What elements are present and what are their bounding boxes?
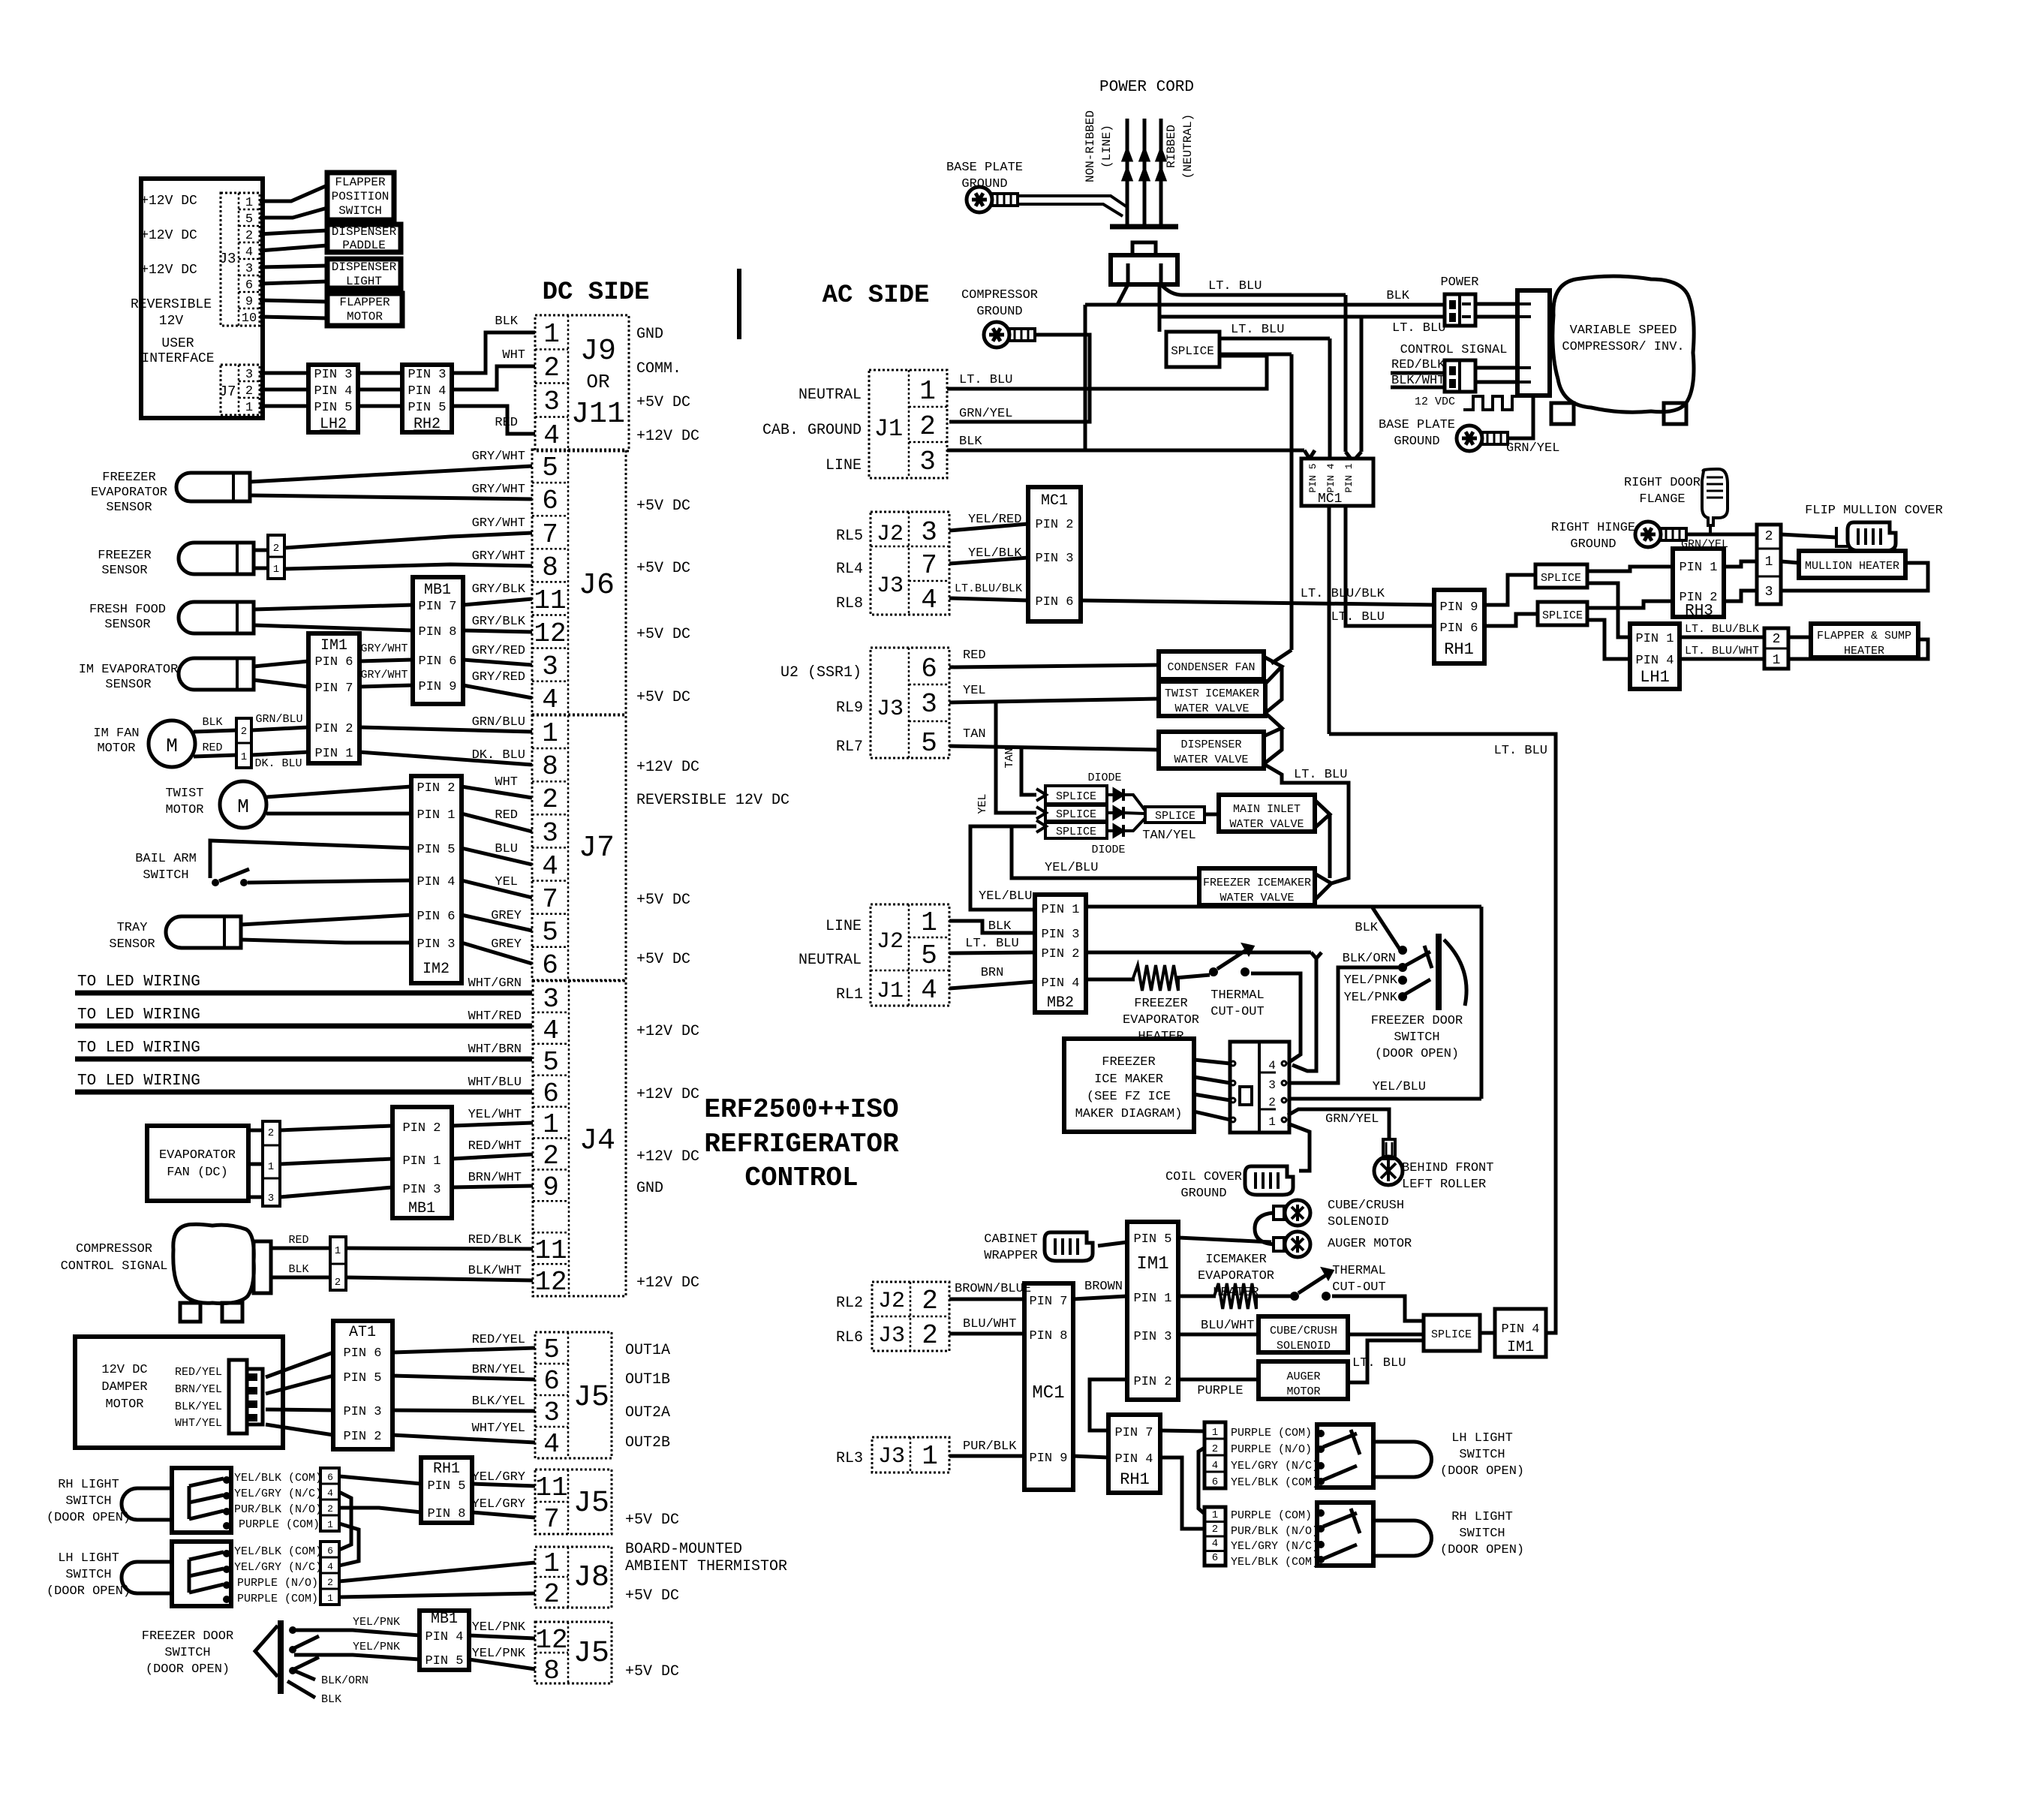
svg-text:IM EVAPORATOR: IM EVAPORATOR: [79, 663, 179, 677]
svg-text:(LINE): (LINE): [1100, 125, 1114, 168]
svg-text:7: 7: [542, 884, 558, 915]
wire compressor BLK: [271, 1276, 330, 1280]
splice 1: [1166, 332, 1219, 367]
svg-text:MOTOR: MOTOR: [1286, 1385, 1320, 1398]
freezer ice maker box: [1064, 1039, 1194, 1132]
svg-text:POWER CORD: POWER CORD: [1099, 79, 1194, 96]
svg-text:AT1: AT1: [349, 1324, 376, 1341]
wire IM2 pin2 WHT to J7-2: [462, 787, 532, 798]
svg-text:RL7: RL7: [836, 739, 863, 756]
wire AT1 pin3 BLK/YEL to J5-3: [392, 1410, 535, 1411]
connector LH2: [308, 365, 358, 432]
svg-text:SWITCH: SWITCH: [338, 204, 382, 218]
svg-text:RED: RED: [495, 808, 518, 823]
svg-text:YEL/GRY (N/C): YEL/GRY (N/C): [1231, 1540, 1319, 1553]
svg-text:2: 2: [268, 1127, 274, 1139]
connector 6/4/2/1 LH switch dc: [320, 1542, 339, 1605]
connector AT1: [333, 1321, 392, 1449]
svg-text:11: 11: [534, 1235, 567, 1266]
wire BLK diagonal to freezer door switch ac: [1372, 907, 1400, 950]
svg-text:PURPLE (N/O): PURPLE (N/O): [1231, 1443, 1312, 1456]
svg-text:RIGHT DOOR: RIGHT DOOR: [1624, 476, 1701, 490]
svg-text:BRN: BRN: [981, 966, 1004, 980]
wire LH1 pin1 LT. BLU/BLK to conn 2: [1680, 636, 1764, 639]
svg-text:DIODE: DIODE: [1087, 772, 1121, 784]
svg-text:PIN 3: PIN 3: [1035, 552, 1073, 566]
svg-text:FREEZER: FREEZER: [102, 471, 155, 485]
svg-text:DIODE: DIODE: [1091, 844, 1125, 856]
svg-text:+5V DC: +5V DC: [636, 560, 690, 577]
svg-text:YEL/BLK: YEL/BLK: [968, 546, 1022, 561]
svg-text:+5V DC: +5V DC: [636, 689, 690, 706]
svg-text:BLK/ORN: BLK/ORN: [1343, 952, 1396, 966]
svg-text:BLK/WHT: BLK/WHT: [1391, 374, 1445, 388]
svg-text:(DOOR OPEN): (DOOR OPEN): [47, 1511, 131, 1525]
svg-text:GRN/YEL: GRN/YEL: [1681, 538, 1728, 551]
svg-text:BASE PLATE: BASE PLATE: [1379, 418, 1455, 432]
svg-text:PIN 2: PIN 2: [402, 1121, 441, 1136]
wire J3-3 to dispenser light: [260, 266, 327, 267]
svg-text:PIN 3: PIN 3: [417, 937, 455, 952]
svg-text:GRY/WHT: GRY/WHT: [472, 549, 525, 564]
svg-text:2: 2: [542, 784, 558, 815]
svg-text:5: 5: [543, 1334, 560, 1365]
svg-text:RED: RED: [495, 416, 518, 430]
svg-text:CUBE/CRUSH: CUBE/CRUSH: [1270, 1325, 1337, 1337]
wire MC1 pin9 to RH1 pin4: [1073, 1456, 1108, 1458]
svg-text:GRY/WHT: GRY/WHT: [360, 669, 407, 681]
svg-text:PIN 2: PIN 2: [417, 781, 455, 796]
svg-text:1: 1: [245, 401, 253, 415]
svg-text:SWITCH: SWITCH: [65, 1494, 111, 1509]
svg-text:YEL/PNK: YEL/PNK: [353, 1616, 400, 1629]
wire cube crush box to splice5: [1348, 1333, 1424, 1337]
wire RH1 pin8 YEL/GRY to J5-7: [472, 1512, 535, 1518]
svg-text:RL2: RL2: [836, 1295, 863, 1312]
connector 2/1 freezer sensor: [268, 535, 284, 579]
svg-text:J3: J3: [878, 1444, 905, 1470]
svg-text:POSITION: POSITION: [332, 190, 389, 203]
connector J5 out: [535, 1332, 612, 1458]
wire heater to thermal cutout 2: [1255, 1295, 1291, 1298]
flapper and sump heater box: [1811, 624, 1918, 657]
svg-text:CUBE/CRUSH: CUBE/CRUSH: [1328, 1199, 1404, 1213]
wire evap fan 1 to MB1 pin1: [280, 1159, 392, 1164]
wire tray sensor to IM2 pin6: [241, 915, 411, 925]
wire IM1 pin1 DK. BLU to J7-8: [359, 752, 532, 765]
wire thermal cutout 2 to splice5: [1332, 1296, 1424, 1321]
svg-text:YEL/PNK: YEL/PNK: [472, 1647, 526, 1661]
wire IM2 pin1 RED to J7-3: [462, 814, 532, 832]
svg-text:SPLICE: SPLICE: [1056, 808, 1096, 821]
svg-text:DISPENSER: DISPENSER: [332, 225, 397, 239]
svg-text:RL8: RL8: [836, 595, 863, 612]
svg-text:GRY/WHT: GRY/WHT: [472, 483, 525, 497]
svg-text:LT. BLU: LT. BLU: [1352, 1356, 1406, 1370]
svg-text:GRN/YEL: GRN/YEL: [959, 407, 1012, 421]
svg-text:5: 5: [245, 212, 253, 227]
diode 2: [1107, 811, 1114, 814]
wire RL4 YEL/BLK to MC1 pin3: [949, 558, 1028, 564]
svg-text:NEUTRAL: NEUTRAL: [798, 952, 862, 969]
wire RH switch to RH1 pin8: [339, 1508, 421, 1512]
svg-text:PIN 4: PIN 4: [314, 384, 352, 399]
crosslink RH to LH switch wires dc: [339, 1492, 351, 1550]
diode 3: [1107, 829, 1114, 832]
svg-text:CONDENSER FAN: CONDENSER FAN: [1167, 661, 1255, 674]
svg-text:3: 3: [543, 984, 559, 1015]
svg-text:GRN/BLU: GRN/BLU: [472, 715, 525, 730]
svg-text:U2 (SSR1): U2 (SSR1): [780, 664, 862, 681]
svg-text:INTERFACE: INTERFACE: [141, 351, 214, 366]
svg-text:TO LED WIRING: TO LED WIRING: [77, 1072, 200, 1090]
svg-text:BROWN: BROWN: [1084, 1280, 1123, 1294]
wire IM2 pin5 BLU to J7-4: [462, 848, 532, 865]
svg-text:3: 3: [268, 1193, 274, 1205]
svg-text:TAN/YEL: TAN/YEL: [1142, 829, 1195, 843]
svg-text:J1: J1: [877, 979, 904, 1004]
svg-text:PIN 8: PIN 8: [1029, 1329, 1067, 1343]
YEL/BLU loop from MB2 pin1 to splice3: [970, 826, 1036, 910]
svg-text:FAN (DC): FAN (DC): [167, 1166, 228, 1180]
svg-text:GROUND: GROUND: [1180, 1187, 1226, 1201]
svg-text:4: 4: [1212, 1538, 1218, 1550]
svg-text:MB1: MB1: [431, 1611, 458, 1628]
svg-text:LEFT ROLLER: LEFT ROLLER: [1402, 1178, 1486, 1192]
svg-text:FREEZER: FREEZER: [1134, 997, 1187, 1011]
crosslink LH conn 2 to RH conn 1: [1198, 1448, 1204, 1514]
svg-text:YEL/BLU: YEL/BLU: [1045, 861, 1098, 875]
svg-text:BRN/YEL: BRN/YEL: [472, 1363, 525, 1377]
wire evap fan 3 to MB1 pin3: [280, 1187, 392, 1197]
svg-text:3: 3: [1765, 585, 1773, 600]
svg-text:+5V DC: +5V DC: [636, 498, 690, 515]
svg-text:PIN 7: PIN 7: [1114, 1426, 1153, 1440]
svg-text:BLK/ORN: BLK/ORN: [321, 1674, 368, 1687]
svg-text:SENSOR: SENSOR: [106, 501, 152, 515]
svg-text:M: M: [237, 796, 249, 818]
connector J7 main: [532, 715, 626, 980]
wire RH3 pin1 to conn 1: [1724, 561, 1757, 567]
svg-text:ICE MAKER: ICE MAKER: [1094, 1072, 1163, 1087]
wire J3-1 to flapper position switch: [260, 185, 327, 201]
svg-text:11: 11: [535, 1473, 567, 1503]
svg-text:12 VDC: 12 VDC: [1415, 396, 1455, 408]
wire BLK/ORN from door switch to icemaker conn pin3: [1288, 967, 1403, 1083]
svg-text:PIN 1: PIN 1: [417, 808, 455, 823]
svg-text:PIN 4: PIN 4: [1041, 976, 1079, 991]
svg-text:PIN 1: PIN 1: [1041, 903, 1079, 917]
svg-text:FREEZER: FREEZER: [98, 549, 151, 563]
connector J3: [221, 193, 260, 326]
svg-text:PIN 5: PIN 5: [425, 1654, 463, 1668]
svg-text:SWITCH: SWITCH: [1459, 1527, 1505, 1541]
svg-text:EVAPORATOR: EVAPORATOR: [1198, 1269, 1274, 1283]
svg-text:RH1: RH1: [1120, 1470, 1150, 1489]
wire thermal cutout to icemaker conn pin4: [1251, 973, 1301, 1062]
compressor symbol dc: [173, 1224, 254, 1303]
wire icemaker pin1 to coil cover ground: [1288, 1124, 1310, 1171]
twist icemaker water valve box: [1159, 681, 1265, 716]
svg-text:SPLICE: SPLICE: [1431, 1328, 1472, 1341]
svg-text:IM1: IM1: [320, 637, 347, 654]
svg-text:(DOOR OPEN): (DOOR OPEN): [1440, 1464, 1524, 1479]
LH light switch box dc: [172, 1542, 231, 1606]
svg-text:BLK: BLK: [1355, 921, 1378, 935]
svg-text:9: 9: [543, 1172, 559, 1203]
svg-text:WHT/YEL: WHT/YEL: [175, 1417, 222, 1430]
wire splice LT. BLU to MC1 pin4: [1219, 337, 1330, 341]
pin 4 IM1 box: [1495, 1309, 1546, 1357]
svg-text:1: 1: [241, 751, 247, 763]
connector RH1 bottom: [1108, 1415, 1160, 1493]
wire RL2 BROWN/BLUE to MC1 pin7: [949, 1298, 1024, 1301]
connector J1: [869, 370, 947, 478]
wire freezer door switch BLK stub: [287, 1681, 315, 1698]
svg-text:WHT/BLU: WHT/BLU: [468, 1075, 522, 1090]
LH light switch box ac: [1317, 1424, 1373, 1488]
svg-text:2: 2: [1765, 529, 1773, 544]
wires RED/BLK BLK/WHT stubs: [1391, 372, 1445, 375]
svg-text:GRY/WHT: GRY/WHT: [472, 516, 525, 531]
compressor terminal block: [1517, 290, 1550, 396]
connector IM2: [411, 776, 462, 983]
svg-text:12: 12: [534, 618, 566, 649]
svg-text:6: 6: [542, 950, 558, 981]
svg-text:PIN 1: PIN 1: [1133, 1292, 1171, 1306]
connector MB2: [1035, 895, 1086, 1012]
svg-text:SPLICE: SPLICE: [1056, 790, 1096, 803]
svg-text:LINE: LINE: [826, 918, 862, 935]
svg-text:12: 12: [535, 1625, 567, 1656]
wire im evap sensor to IM1 pin7: [254, 680, 308, 687]
svg-text:J2: J2: [878, 1289, 905, 1314]
wire splice3 to RH3 pin2: [1587, 601, 1673, 608]
power plug: [1132, 242, 1156, 255]
wire RL5 YEL/RED to MC1 pin2: [949, 524, 1028, 531]
wire RL3 PUR/BLK to MC1 pin9: [949, 1454, 1024, 1458]
svg-text:(DOOR OPEN): (DOOR OPEN): [1440, 1543, 1524, 1557]
svg-text:6: 6: [542, 486, 558, 516]
svg-text:LT. BLU/BLK: LT. BLU/BLK: [1685, 623, 1759, 636]
wire MB1 pin8 GRY/BLK to J6-12: [463, 630, 532, 632]
wire RED/BLK to J4-11: [346, 1248, 533, 1249]
LH light switch lamp ac: [1373, 1442, 1432, 1477]
behind front left roller ground: [1383, 1139, 1395, 1159]
connector 2/1/3 evaporator fan: [263, 1121, 280, 1206]
wire TAN branch to splice1: [1021, 746, 1036, 795]
wire twist motor to IM2 pin2: [266, 787, 411, 797]
svg-text:THERMAL: THERMAL: [1210, 988, 1264, 1003]
svg-text:PIN 9: PIN 9: [1029, 1451, 1067, 1466]
wire RH2 pin3 BLK to J9-1: [452, 332, 535, 373]
main inlet valve bracket: [1315, 800, 1330, 828]
svg-text:GRY/RED: GRY/RED: [472, 644, 525, 658]
svg-text:MC1: MC1: [1318, 492, 1342, 507]
svg-text:J7: J7: [579, 832, 615, 865]
svg-text:PIN 5: PIN 5: [343, 1371, 381, 1385]
svg-text:REVERSIBLE: REVERSIBLE: [131, 297, 212, 312]
svg-text:+12V DC: +12V DC: [636, 428, 699, 445]
wire J1-1 LT. BLU to splice: [947, 356, 1267, 389]
svg-text:4: 4: [921, 585, 937, 615]
svg-text:2: 2: [1212, 1443, 1218, 1455]
svg-text:J3: J3: [877, 573, 904, 599]
svg-text:WHT/RED: WHT/RED: [468, 1009, 522, 1024]
svg-text:YEL/PNK: YEL/PNK: [472, 1620, 526, 1635]
svg-text:DISPENSER: DISPENSER: [1180, 739, 1241, 751]
svg-text:TAN: TAN: [963, 727, 986, 742]
svg-text:RH LIGHT: RH LIGHT: [1451, 1510, 1513, 1524]
wire IM1 pin2 to RH1 pin7: [1090, 1379, 1127, 1430]
connector 2/1 IM fan motor: [236, 718, 251, 768]
svg-text:COMPRESSOR: COMPRESSOR: [76, 1242, 152, 1256]
svg-text:PIN 5: PIN 5: [314, 401, 352, 415]
svg-text:OUT2B: OUT2B: [625, 1434, 670, 1451]
svg-text:PIN 4: PIN 4: [407, 384, 446, 399]
wire plug left pin BLK down: [1085, 284, 1128, 305]
wire RH1 pin4 to RH switch conn 2: [1160, 1458, 1204, 1529]
svg-text:AUGER MOTOR: AUGER MOTOR: [1328, 1237, 1412, 1251]
svg-text:12: 12: [534, 1267, 567, 1298]
svg-text:J5: J5: [573, 1381, 609, 1415]
svg-text:BLK: BLK: [959, 435, 982, 449]
svg-text:RED: RED: [202, 742, 222, 754]
svg-text:SENSOR: SENSOR: [101, 564, 147, 578]
svg-text:YEL/GRY (N/C): YEL/GRY (N/C): [234, 1488, 322, 1500]
svg-text:+5V DC: +5V DC: [636, 951, 690, 968]
svg-text:BLK: BLK: [288, 1263, 308, 1276]
wire LH1 pin4 LT. BLU/WHT to conn 1: [1680, 657, 1764, 661]
svg-text:PIN 6: PIN 6: [418, 654, 456, 669]
svg-text:GRY/RED: GRY/RED: [472, 670, 525, 684]
svg-text:BLK: BLK: [321, 1693, 341, 1706]
svg-text:OUT1A: OUT1A: [625, 1342, 670, 1359]
wire RH1 pin7 to LH switch conn 1: [1160, 1430, 1204, 1431]
svg-text:3: 3: [245, 262, 253, 276]
dispenser paddle: [327, 224, 401, 252]
svg-text:PIN 4: PIN 4: [425, 1630, 463, 1644]
svg-text:GRY/BLK: GRY/BLK: [472, 582, 526, 597]
svg-text:LT. BLU: LT. BLU: [959, 373, 1012, 387]
svg-text:DAMPER: DAMPER: [101, 1380, 147, 1394]
svg-text:4: 4: [921, 975, 937, 1006]
svg-text:2: 2: [922, 1286, 938, 1316]
svg-text:MC1: MC1: [1041, 492, 1068, 510]
svg-text:2: 2: [273, 543, 279, 555]
wire evap fan 2 to MB1 pin2: [280, 1126, 392, 1130]
wire LT. BLU to power connector pin2: [1159, 315, 1445, 319]
wire J1-4 BRN to MB2 pin4: [949, 982, 1035, 988]
svg-text:J2: J2: [877, 522, 904, 547]
freezer icemaker valve bracket: [1315, 874, 1331, 900]
svg-text:RH LIGHT: RH LIGHT: [58, 1478, 119, 1492]
wire freezer door switch YEL/PNK to MB1 pin4: [294, 1630, 420, 1635]
svg-text:PIN 6: PIN 6: [314, 655, 353, 669]
svg-text:IM1: IM1: [1136, 1254, 1168, 1274]
svg-text:LH1: LH1: [1640, 668, 1670, 687]
auger motor box: [1259, 1361, 1348, 1399]
condenser fan box: [1159, 651, 1264, 679]
svg-text:M: M: [166, 735, 178, 757]
svg-text:WHT/BRN: WHT/BRN: [468, 1042, 522, 1057]
diode 1: [1107, 793, 1114, 796]
svg-text:FREEZER ICEMAKER: FREEZER ICEMAKER: [1203, 877, 1311, 889]
svg-text:WHT/GRN: WHT/GRN: [468, 976, 522, 991]
connector IM1 dc: [308, 633, 359, 763]
dispenser water valve box: [1159, 732, 1264, 769]
svg-text:3: 3: [921, 517, 937, 548]
svg-text:8: 8: [542, 552, 558, 583]
svg-text:IM2: IM2: [423, 961, 450, 978]
wire IM1 pin6 GRY/WHT to MB1 pin6: [359, 660, 413, 661]
svg-text:2: 2: [1268, 1096, 1276, 1109]
wire twist motor to IM2 pin1: [266, 812, 411, 816]
RH light switch lamp ac: [1373, 1521, 1432, 1556]
flapper position switch: [327, 173, 394, 220]
svg-text:1: 1: [335, 1245, 341, 1257]
wire mullion heater loop to conn 3: [1781, 563, 1928, 591]
svg-text:7: 7: [921, 550, 937, 581]
wire MB1 pin4 YEL/PNK to J5-12: [469, 1635, 535, 1638]
wire im evap sensor to IM1 pin6: [254, 661, 308, 666]
svg-text:PIN 3: PIN 3: [407, 368, 446, 382]
svg-text:FLAPPER & SUMP: FLAPPER & SUMP: [1817, 630, 1911, 642]
svg-text:GROUND: GROUND: [1394, 435, 1439, 449]
svg-text:2: 2: [245, 384, 253, 399]
svg-text:4: 4: [543, 1429, 560, 1460]
connector MB1 evaporator fan: [392, 1107, 452, 1218]
svg-text:PURPLE (N/O): PURPLE (N/O): [237, 1577, 318, 1590]
svg-text:1: 1: [921, 907, 937, 938]
LH light switch lamp dc: [122, 1562, 172, 1593]
svg-text:BLK: BLK: [495, 314, 518, 329]
svg-text:TO LED WIRING: TO LED WIRING: [77, 973, 200, 991]
wire IM fan motor RED: [194, 755, 236, 757]
svg-text:GND: GND: [636, 1180, 663, 1197]
svg-text:RL5: RL5: [836, 528, 863, 545]
wire splice2 to LH1 pin1: [1587, 583, 1630, 637]
svg-text:YEL/PNK: YEL/PNK: [1344, 991, 1398, 1005]
svg-text:YEL: YEL: [963, 684, 986, 698]
svg-text:+12V DC: +12V DC: [140, 263, 197, 278]
svg-text:2: 2: [922, 1320, 938, 1351]
wire AT1 pin6 RED/YEL to J5-5: [392, 1348, 535, 1352]
svg-text:REFRIGERATOR: REFRIGERATOR: [704, 1129, 899, 1160]
wire MB1 pin3 BRN/WHT to J4-9: [452, 1186, 533, 1187]
wire freezer evap sensor GRY/WHT to J6-5: [250, 466, 532, 482]
svg-text:4: 4: [1268, 1059, 1276, 1072]
svg-text:2: 2: [543, 353, 560, 384]
svg-text:WHT/YEL: WHT/YEL: [472, 1421, 525, 1436]
svg-text:SWITCH: SWITCH: [1459, 1448, 1505, 1462]
svg-text:YEL/WHT: YEL/WHT: [468, 1108, 522, 1122]
power cord bar: [1110, 224, 1178, 230]
svg-text:REVERSIBLE 12V DC: REVERSIBLE 12V DC: [636, 792, 789, 809]
svg-text:FREEZER: FREEZER: [1102, 1055, 1155, 1069]
svg-text:FLAPPER: FLAPPER: [335, 176, 386, 189]
svg-text:1: 1: [1268, 1115, 1276, 1129]
auger motor round connector: [1274, 1238, 1284, 1251]
svg-text:WATER VALVE: WATER VALVE: [1229, 818, 1304, 831]
compressor feet: [1551, 403, 1574, 424]
connector RL3 table: [872, 1437, 949, 1473]
svg-text:PIN 6: PIN 6: [1035, 595, 1073, 609]
svg-text:RED/WHT: RED/WHT: [468, 1139, 522, 1154]
connector MC1 ac: [1028, 487, 1081, 621]
svg-text:PIN 1: PIN 1: [402, 1154, 441, 1169]
svg-text:GRY/BLK: GRY/BLK: [472, 615, 526, 629]
